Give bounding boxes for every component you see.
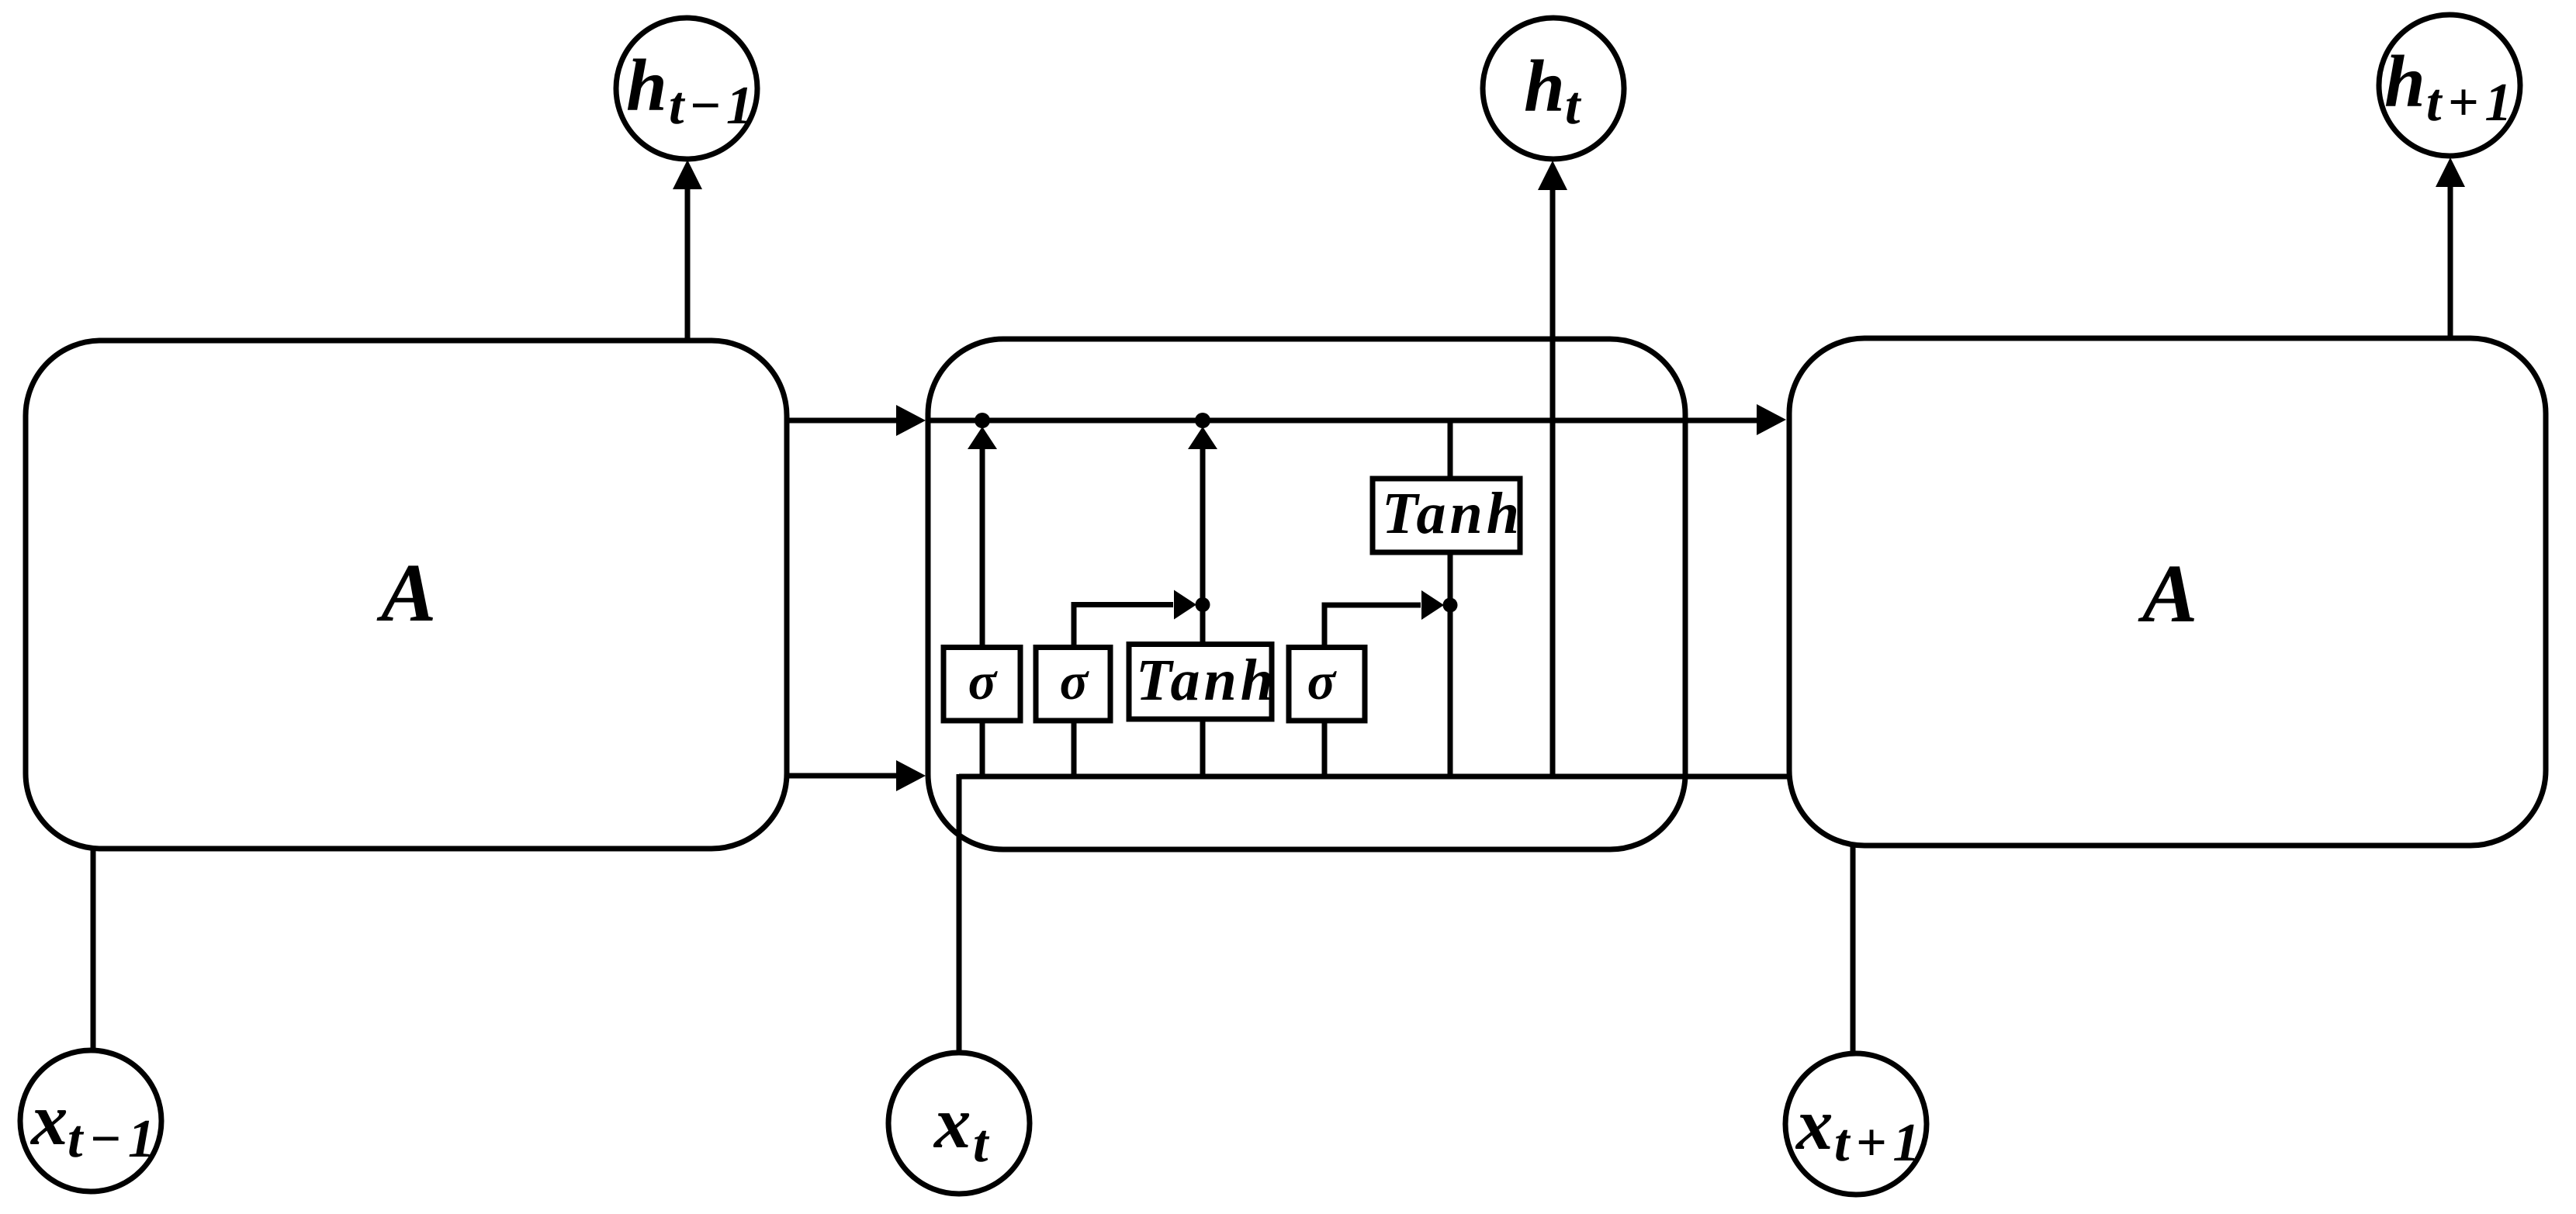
svg-text:h: h [2384,40,2425,123]
wire cell-state to output tanh [1448,420,1453,479]
junction dot on output riser [1443,598,1458,613]
svg-text:t−1: t−1 [669,76,758,136]
svg-text:σ: σ [1060,652,1090,711]
junction dot on cell-state line 1 [975,413,990,428]
wire sigma3 bottom stub [1322,721,1328,776]
svg-text:h: h [1524,45,1565,127]
wire x_t input riser [957,774,962,1053]
node x_t circle [888,1053,1030,1194]
gate tanh (candidate) box [1129,645,1272,720]
wire bottom input line across LSTM cell [959,774,1788,780]
svg-text:Tanh: Tanh [1136,648,1277,713]
wire sigma1 bottom stub [980,721,985,776]
gate tanh (output) box [1373,479,1520,552]
svg-text:t−1: t−1 [68,1109,161,1169]
wire h_t-1 output arrow [685,188,691,338]
svg-text:t: t [973,1114,990,1174]
svg-text:x: x [1795,1083,1833,1165]
wire sigma2 elbow to tanh riser [1074,605,1173,649]
gate sigma 1 box [943,648,1020,721]
svg-text:h: h [626,44,667,126]
wire tanh riser arrow to cell-state [1200,448,1206,645]
cell A (t+1) rounded box [1789,338,2546,846]
svg-text:x: x [933,1081,971,1164]
wire tanh bottom stub [1200,719,1206,776]
wire x_t-1 input connector [91,849,96,1051]
node x_t+1 circle [1785,1053,1927,1195]
gate sigma 2 box [1036,648,1110,721]
svg-text:σ: σ [1307,652,1338,711]
svg-text:A: A [2138,548,2197,640]
wire h_t output riser [1550,188,1556,776]
wire cell-state entry (left cell to LSTM cell) [787,418,898,424]
node h_t+1 circle [2379,15,2520,156]
junction dot on tanh riser [1196,597,1210,612]
wire output tanh down to bottom line [1448,552,1453,776]
gate sigma 3 box [1289,648,1365,721]
svg-text:t+1: t+1 [2426,73,2518,133]
cell A (t-1) rounded box [26,341,787,849]
node x_t-1 circle [20,1050,161,1192]
svg-text:A: A [376,548,436,639]
wire sigma3 elbow to output riser [1324,605,1421,649]
svg-text:Tanh: Tanh [1382,481,1523,546]
LSTM cell (t) rounded box [928,339,1685,849]
node h_t-1 circle [616,18,757,159]
wire sigma2 bottom stub [1072,721,1077,776]
wire cell-state line across LSTM cell [928,418,1758,424]
wire h_t+1 output arrow [2448,185,2453,337]
node h_t circle [1483,18,1624,159]
wire hidden entry (left cell to LSTM cell, bottom) [787,773,898,779]
wire x_t+1 input connector [1851,844,1856,1053]
svg-text:σ: σ [968,652,999,711]
junction dot on cell-state line 2 [1195,413,1210,428]
svg-text:x: x [29,1078,68,1160]
svg-text:t+1: t+1 [1834,1113,1926,1173]
svg-text:t: t [1565,76,1582,136]
wire sigma1 output arrow to cell-state [980,448,985,649]
